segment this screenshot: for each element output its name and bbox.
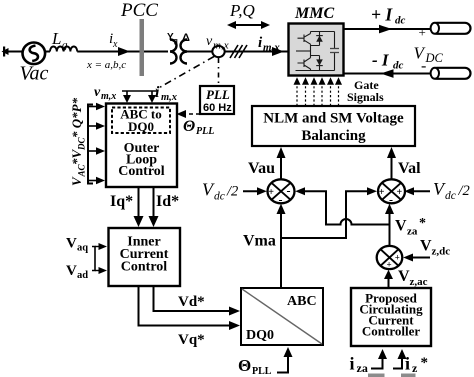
svg-text:m,x: m,x xyxy=(101,91,116,102)
svg-text:V: V xyxy=(395,218,407,235)
iza label xyxy=(350,354,368,376)
svg-text:i: i xyxy=(155,84,160,101)
AC source Vac xyxy=(20,43,49,85)
svg-text:+: + xyxy=(387,260,392,270)
reference inputs rotated label xyxy=(69,97,87,186)
wire Vd* xyxy=(154,286,241,316)
wire Vma branch to S2 via crossover vertical xyxy=(281,187,377,238)
wire iza to controller xyxy=(371,349,387,369)
svg-text:V: V xyxy=(66,263,77,279)
svg-text:za: za xyxy=(357,361,368,375)
MMC diode D1 xyxy=(316,36,323,42)
theta PLL label bottom xyxy=(238,356,272,377)
Vad label xyxy=(66,263,88,281)
wire node to MMC with imx arrow and slashes xyxy=(225,35,289,58)
DQ0 to ABC block xyxy=(241,288,323,345)
dash-dot tap from node to PLL xyxy=(218,58,220,86)
svg-text:V: V xyxy=(66,236,77,252)
svg-text:g: g xyxy=(62,39,68,51)
wire Vza* branch to S1 with hop over Vma branch xyxy=(295,187,389,224)
svg-text:z,dc: z,dc xyxy=(432,246,451,258)
summer S2 (lower arm) xyxy=(378,179,405,206)
svg-text:60 Hz: 60 Hz xyxy=(203,102,232,114)
svg-text:-: - xyxy=(287,184,291,198)
svg-text:v: v xyxy=(206,34,213,49)
svg-text:ABC: ABC xyxy=(287,294,317,309)
wire Vza* from lower summer up to S2 xyxy=(385,204,426,246)
svg-text:Vau: Vau xyxy=(248,160,275,177)
transformer Yg xyxy=(167,32,178,64)
svg-text:+: + xyxy=(419,25,426,40)
svg-text:dc: dc xyxy=(214,191,225,203)
svg-text:/2: /2 xyxy=(226,184,238,200)
svg-text:Controller: Controller xyxy=(362,324,420,339)
-DC terminal cylinder xyxy=(421,58,471,79)
MMC converter block xyxy=(289,24,344,76)
svg-text:+: + xyxy=(395,253,400,263)
iz* underline mark xyxy=(401,374,416,377)
node vmx circle xyxy=(206,34,229,57)
svg-text:Vac: Vac xyxy=(20,63,49,85)
wire transformer to node xyxy=(187,51,213,53)
svg-text:dc: dc xyxy=(445,190,456,202)
svg-text:m,x: m,x xyxy=(263,42,280,54)
Gate Signals label xyxy=(347,78,384,104)
reference input bracket xyxy=(88,105,93,184)
gate signal dashed arrows xyxy=(294,77,343,106)
AC line terminal arrow xyxy=(2,47,9,57)
svg-text:* Q*P*: * Q*P* xyxy=(69,97,84,138)
svg-text:Val: Val xyxy=(398,160,421,177)
svg-text:x = a,b,c: x = a,b,c xyxy=(86,59,126,71)
MMC SM capacitor xyxy=(330,49,339,53)
wire Iq* xyxy=(110,187,144,227)
svg-text:Iq*: Iq* xyxy=(110,193,133,210)
svg-text:-: - xyxy=(421,58,426,75)
svg-text:-: - xyxy=(279,193,283,207)
wire Val summer to NLM xyxy=(387,147,396,179)
svg-text:aq: aq xyxy=(77,243,88,254)
svg-text:PLL: PLL xyxy=(196,126,214,137)
ABC to DQ0 dashed block xyxy=(112,107,170,135)
PCC bus bar xyxy=(140,19,145,76)
Vdc/2 right label xyxy=(433,179,470,202)
Vz,dc label xyxy=(420,238,450,258)
wire MMC to +DC terminal xyxy=(344,25,432,34)
svg-text:g: g xyxy=(174,38,178,45)
wire Vz,dc to S3 xyxy=(403,254,430,262)
svg-text:Θ: Θ xyxy=(238,356,251,375)
iz* label xyxy=(405,354,428,376)
svg-text:dc: dc xyxy=(395,15,406,27)
svg-text:V: V xyxy=(420,238,432,255)
svg-text:V: V xyxy=(69,176,84,186)
svg-text:dc: dc xyxy=(393,60,404,72)
Vaq label xyxy=(66,236,88,254)
MMC inner submodule circuit xyxy=(296,32,335,71)
+DC terminal cylinder xyxy=(419,23,471,40)
Vz,ac label xyxy=(398,268,428,288)
svg-text:m,x: m,x xyxy=(161,92,177,103)
svg-text:PLL: PLL xyxy=(206,87,230,102)
svg-text:+: + xyxy=(268,187,274,198)
svg-text:- I: - I xyxy=(372,51,390,70)
wire -DC terminal to MMC xyxy=(344,69,431,78)
MMC diode D2 xyxy=(316,59,323,65)
svg-text:i: i xyxy=(350,354,355,374)
svg-text:za: za xyxy=(407,226,418,238)
svg-text:*: * xyxy=(421,355,429,371)
dashed wire PLL to outer loop (theta) xyxy=(177,110,201,118)
svg-text:Id*: Id* xyxy=(156,193,179,210)
Proposed Circulating Current Controller block xyxy=(351,288,431,346)
svg-text:DQ0: DQ0 xyxy=(128,119,154,134)
measurement junction wires vmx imx xyxy=(94,84,177,103)
wire Vdc/2 to S1 xyxy=(243,187,267,195)
svg-text:z: z xyxy=(412,361,418,375)
svg-text:z,ac: z,ac xyxy=(410,276,428,288)
Inner Current Control block xyxy=(109,228,181,286)
wire Vdc/2 to S2 xyxy=(404,187,430,195)
wire Vau summer to NLM xyxy=(277,147,286,179)
svg-text:i: i xyxy=(405,354,410,374)
inductor Lg xyxy=(50,29,77,52)
svg-text:Control: Control xyxy=(118,164,165,179)
summer S3 (circulating current) xyxy=(377,246,403,270)
wire inductor to transformer with ix arrow xyxy=(77,31,168,71)
svg-text:/2: /2 xyxy=(458,183,470,199)
P,Q label and measurement arrow xyxy=(227,1,270,29)
svg-text:NLM and SM Voltage: NLM and SM Voltage xyxy=(263,111,404,127)
svg-text:+ I: + I xyxy=(371,5,393,25)
svg-text:Signals: Signals xyxy=(347,90,384,104)
wire iz* to controller xyxy=(393,349,407,369)
svg-text:+: + xyxy=(397,187,403,198)
svg-text:x: x xyxy=(112,39,118,50)
transformer Delta winding xyxy=(181,32,191,64)
svg-text:DQ0: DQ0 xyxy=(246,328,274,343)
svg-text:*: * xyxy=(419,216,426,231)
svg-text:DC: DC xyxy=(425,51,444,65)
PLL block xyxy=(200,86,234,114)
VDC label xyxy=(414,44,444,66)
wire theta to DQ0 block xyxy=(277,347,293,373)
reference input arrows xyxy=(88,103,105,185)
theta PLL label xyxy=(183,118,214,137)
wire Proposed controller to S3 xyxy=(384,270,393,288)
svg-text:V: V xyxy=(398,268,410,285)
NLM and SM Voltage Balancing block xyxy=(252,106,415,146)
summer S1 (upper arm) xyxy=(268,179,295,206)
Vad arrow xyxy=(95,267,107,274)
svg-text:Vd*: Vd* xyxy=(178,294,205,310)
wire Vma: DQ0 up to S1 with branch xyxy=(243,204,286,288)
wire Id* xyxy=(149,187,180,227)
svg-text:ad: ad xyxy=(77,270,88,281)
svg-text:Control: Control xyxy=(121,260,168,275)
svg-text:MMC: MMC xyxy=(294,5,334,22)
Vaq arrow xyxy=(95,243,107,250)
+Idc label xyxy=(371,5,406,27)
svg-text:Vq*: Vq* xyxy=(178,332,205,348)
svg-text:+: + xyxy=(379,187,385,198)
svg-text:Θ: Θ xyxy=(183,118,195,135)
iza underline mark xyxy=(368,374,385,377)
svg-text:PLL: PLL xyxy=(252,366,272,377)
Vdc/2 left label xyxy=(202,180,238,203)
svg-text:P,Q: P,Q xyxy=(229,1,255,20)
svg-text:m,x: m,x xyxy=(213,40,229,52)
svg-text:Δ: Δ xyxy=(182,32,190,44)
Outer Loop Control block xyxy=(106,104,177,188)
wire AC to inductor xyxy=(45,51,50,53)
wire source to AC xyxy=(8,51,23,53)
svg-text:PCC: PCC xyxy=(120,0,158,21)
svg-text:Vma: Vma xyxy=(243,233,276,250)
-Idc label xyxy=(372,51,404,72)
svg-text:v: v xyxy=(94,85,101,100)
wire Vq* xyxy=(139,286,241,348)
svg-text:Balancing: Balancing xyxy=(301,128,366,144)
svg-text:L: L xyxy=(51,29,61,48)
dash-dot tap from node to measurement point xyxy=(156,57,214,90)
Vaq Vad bracket xyxy=(92,247,95,271)
